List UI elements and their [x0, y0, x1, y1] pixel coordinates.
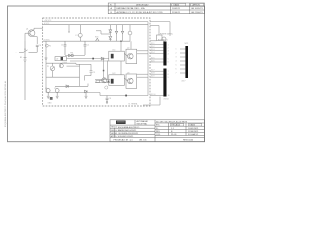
- capacitor C1: [61, 41, 66, 55]
- svg-text:OC1: OC1: [112, 50, 116, 52]
- svg-text:D. SOUZA 12/05/21: D. SOUZA 12/05/21: [115, 135, 134, 138]
- svg-text:DATA: DATA: [190, 124, 196, 127]
- svg-text:◎⇨: ◎⇨: [130, 139, 134, 142]
- arrow down node: [68, 25, 70, 34]
- fonte PSU box: [150, 35, 166, 41]
- regulator U2 box: [55, 52, 80, 66]
- capacitor C3: [90, 71, 96, 74]
- svg-text:X1:4: X1:4: [151, 52, 155, 54]
- svg-text:F1: F1: [76, 35, 78, 37]
- optocoupler U3 row1: [109, 48, 130, 61]
- svg-text:X1:5: X1:5: [151, 58, 155, 60]
- svg-text:ESC.: ESC.: [156, 125, 161, 127]
- svg-text:X1:9: X1:9: [151, 76, 155, 78]
- bar X1 bottom label: [164, 98, 169, 100]
- svg-text:22/06/2021: 22/06/2021: [188, 131, 199, 133]
- label Q5: [105, 86, 108, 89]
- svg-text:6: 6: [168, 62, 169, 64]
- fonte 24vdc label: [160, 33, 174, 35]
- wire bus C: [100, 93, 148, 96]
- wire mid bus: [46, 60, 76, 63]
- svg-text:PL-01: PL-01: [171, 134, 177, 136]
- ground sym inside box: [48, 97, 53, 104]
- svg-text:ALTERADO C1, C2, R3 DE 10K A 4: ALTERADO C1, C2, R3 DE 10K A 4K7 NO CI 5…: [117, 11, 164, 14]
- transistor Q4: [59, 63, 63, 68]
- svg-text:C4: C4: [45, 88, 47, 90]
- led LD1: [128, 25, 132, 42]
- svg-text:C1: C1: [61, 45, 63, 47]
- svg-text:TITULO: TITULO: [111, 127, 118, 129]
- wire bus A: [55, 84, 88, 87]
- bar X2 bottom label: [182, 81, 186, 83]
- wire pair to opto row2: [95, 80, 110, 83]
- svg-text:10/05/21: 10/05/21: [172, 8, 181, 10]
- svg-text:4: 4: [176, 61, 177, 63]
- svg-text:C6: C6: [39, 45, 41, 47]
- svg-text:APROV.: APROV.: [193, 4, 201, 7]
- svg-text:U2: U2: [56, 59, 58, 61]
- wire Q1 collector to rail: [34, 28, 43, 30]
- wire Q3 out: [124, 74, 148, 81]
- svg-text:G. BARBOSA 10/05/21: G. BARBOSA 10/05/21: [115, 129, 137, 132]
- svg-text:OC2: OC2: [112, 73, 116, 75]
- wire Q1 emitter down: [34, 37, 37, 44]
- resistor R6: [96, 80, 100, 82]
- terminal bar X2: [185, 46, 188, 78]
- optocoupler U4 row2: [109, 72, 130, 85]
- svg-text:9: 9: [168, 77, 169, 79]
- svg-text:X1:1: X1:1: [151, 43, 155, 45]
- sheet frame: [8, 6, 205, 142]
- svg-text:DATA: DATA: [174, 4, 180, 7]
- svg-text:M. OLIVEIRA 11/05/2021: M. OLIVEIRA 11/05/2021: [115, 132, 139, 135]
- svg-text:X2 7: X2 7: [182, 81, 186, 83]
- diode D6: [66, 85, 69, 88]
- wire Q1 base left: [25, 33, 30, 40]
- svg-text:RV1: RV1: [95, 37, 98, 39]
- svg-text:22/06/21: 22/06/21: [172, 12, 181, 14]
- svg-text:2: 2: [176, 53, 177, 55]
- capacitor C8 with terminal: [106, 96, 112, 104]
- capacitor C6: [36, 45, 41, 52]
- diode D4: [121, 25, 123, 42]
- node dot feed: [103, 70, 105, 72]
- diode D3: [115, 25, 117, 42]
- bar X1 right labels: [168, 44, 170, 97]
- svg-text:GB 10/05/21: GB 10/05/21: [191, 8, 204, 10]
- wire rail to opto row1: [121, 41, 131, 75]
- transistor Q3 box: [126, 74, 137, 88]
- svg-text:1: 1: [176, 49, 177, 51]
- wire vertical feeds: [80, 59, 108, 87]
- svg-text:10: 10: [168, 95, 170, 97]
- svg-text:5: 5: [176, 65, 177, 67]
- wire collector bus right: [147, 22, 149, 96]
- svg-text:8: 8: [168, 74, 169, 76]
- svg-text:TR1: TR1: [70, 52, 73, 54]
- net label terra: [129, 103, 139, 106]
- terminal stubs X1: [150, 45, 163, 96]
- svg-text:P1: P1: [47, 66, 49, 68]
- svg-text:XC2: XC2: [185, 43, 189, 45]
- svg-text:REV.01 A4: REV.01 A4: [183, 138, 194, 141]
- margin note (rotated filename text): [4, 80, 7, 127]
- svg-text:5: 5: [168, 59, 169, 61]
- svg-text:GND: GND: [48, 102, 53, 104]
- svg-text:4: 4: [168, 53, 169, 55]
- bar X2 top label: [185, 43, 189, 45]
- svg-text:X1:3: X1:3: [151, 49, 155, 51]
- svg-text:COD.: COD.: [156, 134, 161, 136]
- svg-text:X1 10: X1 10: [164, 98, 169, 100]
- wire step to diodes: [96, 31, 110, 34]
- fuse F2: [45, 44, 51, 48]
- electrolytic C7 with ground: [85, 90, 88, 98]
- ground stub GND1: [45, 41, 48, 60]
- node dot: [92, 58, 94, 60]
- trimpot P1: [47, 62, 65, 77]
- transistor Q5: [100, 78, 107, 83]
- wire loop K1: [85, 64, 92, 80]
- transistor Q1: [26, 29, 35, 37]
- title block: [110, 120, 205, 142]
- svg-text:EMISSAO INICIAL REV. - 01A: EMISSAO INICIAL REV. - 01A: [117, 7, 146, 10]
- svg-text:N. TERRA: N. TERRA: [129, 103, 139, 106]
- wire bus B: [46, 92, 100, 94]
- svg-text:GB 22/06/21: GB 22/06/21: [191, 12, 204, 14]
- svg-text:24 VDC: 24 VDC: [44, 39, 51, 41]
- svg-text:C8: C8: [109, 98, 111, 100]
- svg-text:FOLHA 1/1: FOLHA 1/1: [188, 133, 199, 136]
- wire rail L+: [43, 20, 148, 22]
- svg-text:ESQUEMA ELETRICO PLACA ACION.: ESQUEMA ELETRICO PLACA ACION. REV01 A4: [4, 80, 7, 127]
- revision table: [108, 3, 204, 14]
- svg-text:X1:2: X1:2: [151, 46, 155, 48]
- bar X1 top label: [158, 40, 168, 42]
- svg-text:7: 7: [176, 73, 177, 75]
- svg-text:0 VCC: 0 VCC: [44, 23, 50, 25]
- wire terra drop: [143, 97, 160, 106]
- svg-text:Q1: Q1: [26, 29, 28, 31]
- svg-text:7: 7: [168, 71, 169, 73]
- svg-text:REV.: REV.: [156, 131, 161, 133]
- svg-text:C5: C5: [54, 88, 56, 90]
- svg-text:6: 6: [176, 69, 177, 71]
- varistor RV1: [95, 37, 99, 42]
- node dot row2: [108, 81, 110, 83]
- svg-text:INDUSTRIAL: INDUSTRIAL: [137, 122, 148, 125]
- svg-text:B1: B1: [20, 57, 22, 59]
- svg-text:3: 3: [176, 57, 177, 59]
- svg-text:10/05/2021: 10/05/2021: [188, 128, 199, 130]
- svg-text:2: 2: [168, 47, 169, 49]
- svg-text:+24 VCC: +24 VCC: [44, 20, 52, 22]
- svg-text:F2: F2: [49, 46, 51, 48]
- svg-text:Q4: Q4: [63, 62, 65, 64]
- terminal stubs X2: [180, 49, 185, 73]
- svg-text:X1:8: X1:8: [151, 73, 155, 75]
- fuse F1: [76, 25, 83, 42]
- diode pair on wire: [65, 54, 85, 57]
- fonte wires: [150, 22, 170, 36]
- switch S1: [16, 49, 38, 54]
- node dot rail: [120, 41, 121, 42]
- diode D1: [109, 25, 112, 33]
- battery B1: [20, 40, 26, 100]
- transistor Q2: [128, 53, 134, 59]
- node dot bus C: [125, 95, 127, 97]
- wire lower bus: [46, 63, 80, 92]
- diode D5: [101, 57, 104, 60]
- svg-text:ESQUEMA ELETRICO: ESQUEMA ELETRICO: [118, 126, 140, 129]
- svg-text:X1:10: X1:10: [151, 94, 155, 96]
- terminal bar X1 lower: [163, 69, 166, 97]
- wire rail +24VDC distribution: [43, 39, 130, 41]
- dashed enclosure box: [43, 18, 150, 106]
- wire Q2 out: [124, 51, 148, 56]
- svg-text:X1:7: X1:7: [151, 70, 155, 72]
- wire rail 0V: [43, 23, 148, 25]
- svg-text:1: 1: [168, 44, 169, 46]
- transistor Q2 box: [126, 49, 137, 63]
- wire pair to opto row1: [67, 59, 109, 61]
- svg-text:X1:6: X1:6: [151, 61, 155, 63]
- capacitor C2: [84, 41, 90, 55]
- svg-text:DESCRICAO: DESCRICAO: [136, 4, 149, 7]
- svg-text:UN. mm: UN. mm: [139, 140, 147, 142]
- terminal bar X1 upper: [163, 42, 166, 66]
- svg-text:NO. DES. 0012-ESQ-PL-AC-01 REV: NO. DES. 0012-ESQ-PL-AC-01 REV.B: [156, 120, 188, 123]
- diode D2: [109, 33, 112, 42]
- svg-text:PROJECAO 1E: PROJECAO 1E: [114, 139, 129, 142]
- capacitor C4 with ground: [45, 88, 50, 99]
- svg-text:C3: C3: [93, 72, 95, 74]
- capacitor C5 with ground: [54, 88, 59, 99]
- wire IC drop: [66, 62, 91, 65]
- svg-text:ESCALA: ESCALA: [172, 124, 181, 127]
- transistor Q3: [128, 78, 134, 84]
- svg-text:3: 3: [168, 50, 169, 52]
- svg-text:C2: C2: [87, 45, 89, 47]
